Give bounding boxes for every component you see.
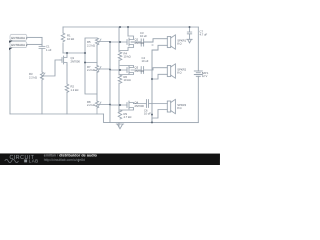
- svg-text:R3: R3: [29, 72, 33, 76]
- svg-text:2.2 kΩ: 2.2 kΩ: [87, 103, 95, 107]
- svg-text:10 uF: 10 uF: [140, 34, 147, 38]
- svg-text:ENTRADA 2: ENTRADA 2: [11, 43, 27, 47]
- svg-text:12 V: 12 V: [202, 74, 208, 78]
- svg-text:2.2 kΩ: 2.2 kΩ: [87, 43, 95, 47]
- svg-text:R5: R5: [87, 40, 91, 44]
- svg-text:LAB: LAB: [29, 159, 39, 164]
- svg-text:2N7000: 2N7000: [135, 41, 145, 45]
- svg-text:1.2 kΩ: 1.2 kΩ: [70, 88, 78, 92]
- svg-text:4.7 uF: 4.7 uF: [200, 33, 208, 37]
- svg-text:8 Ω: 8 Ω: [177, 71, 181, 75]
- svg-text:8 Ω: 8 Ω: [177, 42, 181, 46]
- svg-text:10 kΩ: 10 kΩ: [67, 37, 74, 41]
- svg-text:2.2 kΩ: 2.2 kΩ: [87, 68, 95, 72]
- svg-text:10 uF: 10 uF: [144, 112, 151, 116]
- svg-text:10 kΩ: 10 kΩ: [124, 78, 131, 82]
- svg-text:C1: C1: [46, 45, 50, 49]
- svg-text:4.7 kΩ: 4.7 kΩ: [123, 115, 131, 119]
- svg-text:2N7000: 2N7000: [134, 104, 144, 108]
- svg-text:2.2 kΩ: 2.2 kΩ: [29, 75, 37, 79]
- svg-text:1 uF: 1 uF: [46, 48, 52, 52]
- svg-text:10 kΩ: 10 kΩ: [124, 55, 131, 59]
- svg-text:10 uF: 10 uF: [142, 59, 149, 63]
- svg-text:2N7000: 2N7000: [135, 69, 145, 73]
- svg-text:ENTRADA 1: ENTRADA 1: [11, 36, 27, 40]
- svg-text:8 Ω: 8 Ω: [177, 106, 181, 110]
- svg-text:http://circuitlab.com/c/qje8d: http://circuitlab.com/c/qje8d: [44, 158, 85, 162]
- svg-text:2N7000: 2N7000: [71, 59, 81, 63]
